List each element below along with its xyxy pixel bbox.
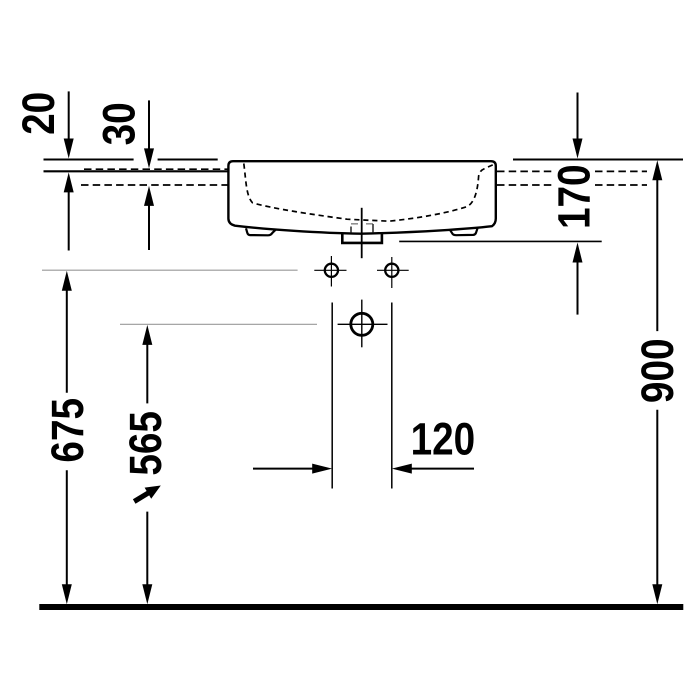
rim top extension line left segment 1 — [44, 159, 134, 161]
dim 20 lower arrowhead — [64, 172, 74, 192]
faucet hole right circle — [385, 264, 398, 277]
drain centerline — [361, 208, 363, 258]
faucet hole left crosshair vertical — [330, 256, 332, 287]
svg-text:30: 30 — [94, 102, 144, 145]
dim 20 lower arrow shaft — [68, 192, 70, 251]
dim 120 right arrow line — [411, 468, 475, 470]
dim 565 upper shaft — [146, 344, 148, 404]
dim 675 upper shaft — [66, 290, 68, 393]
siphon hole crosshair vertical — [361, 300, 363, 348]
hidden wall dashed line C right segment 2 — [595, 170, 647, 172]
hidden wall dashed line D left — [81, 184, 228, 186]
dim 565 upper arrowhead — [142, 325, 152, 345]
dim 20 upper arrow shaft — [68, 91, 70, 140]
overflow hidden dash right — [366, 223, 373, 225]
dim 675 upper arrowhead — [62, 271, 72, 291]
dim 900 lower arrowhead — [652, 584, 662, 604]
svg-text:20: 20 — [13, 92, 63, 135]
dim 120 left arrowhead — [312, 464, 332, 474]
dim 20 upper arrowhead — [64, 139, 74, 159]
basin outline — [228, 161, 495, 234]
dim 170 upper arrowhead — [573, 139, 583, 159]
dim 170 lower arrow shaft — [577, 262, 579, 315]
dim 900 lower shaft — [656, 410, 658, 585]
dim 170 lower arrowhead — [573, 243, 583, 263]
hidden wall dashed line C left — [84, 168, 228, 170]
faucet hole right crosshair horizontal — [377, 269, 409, 271]
overflow hidden dash left — [351, 223, 358, 225]
dim 900 upper shaft — [656, 179, 658, 331]
floor line — [39, 604, 683, 610]
dim 120 extension line right vertical — [391, 303, 393, 489]
faucet hole right crosshair vertical — [391, 257, 393, 288]
hidden wall dashed line C right segment 1 — [497, 170, 554, 172]
rim top extension line right segment — [513, 159, 683, 161]
faucet hole left crosshair horizontal — [314, 269, 346, 271]
faucet hole left circle — [325, 264, 338, 277]
dim 30 lower arrow shaft — [148, 205, 150, 250]
dim 565 lower arrowhead — [142, 584, 152, 604]
basin bottom extension line for 170 — [399, 240, 602, 242]
drain fitting rectangle — [342, 234, 382, 243]
dim 900 upper arrowhead — [652, 160, 662, 180]
adjustable height pointer arrow — [133, 486, 161, 504]
dim 170 upper arrow shaft — [577, 93, 579, 141]
basin right foot — [450, 228, 478, 235]
overflow hidden stub left — [350, 227, 352, 233]
dim 30 lower arrowhead — [144, 186, 154, 206]
svg-text:565: 565 — [120, 411, 170, 476]
dim 120 right arrowhead — [392, 464, 412, 474]
siphon hole crosshair horizontal — [338, 323, 388, 325]
svg-text:120: 120 — [411, 414, 476, 464]
svg-text:675: 675 — [42, 398, 92, 463]
basin inner bowl hidden outline — [244, 164, 494, 222]
svg-text:170: 170 — [549, 164, 599, 229]
dim 565 lower shaft — [146, 512, 148, 585]
overflow hidden stub right — [372, 224, 374, 233]
siphon hole circle — [351, 313, 373, 335]
hidden wall dashed line D right segment 2 — [595, 184, 647, 186]
dim 120 extension line left vertical — [331, 303, 333, 489]
shelf line B solid left — [44, 170, 228, 172]
dim 30 upper arrowhead — [144, 148, 154, 168]
svg-text:900: 900 — [632, 339, 682, 404]
rim top extension line left segment 2 — [158, 159, 218, 161]
basin left foot — [246, 228, 276, 235]
hidden wall dashed line D right segment 1 — [497, 184, 554, 186]
dim 675 lower shaft — [66, 470, 68, 585]
dim 30 upper arrow shaft — [148, 100, 150, 150]
dim 675 lower arrowhead — [62, 584, 72, 604]
extension line siphon level gray — [120, 323, 317, 325]
dim 120 left arrow line — [253, 468, 314, 470]
extension line faucet level gray — [42, 269, 298, 271]
